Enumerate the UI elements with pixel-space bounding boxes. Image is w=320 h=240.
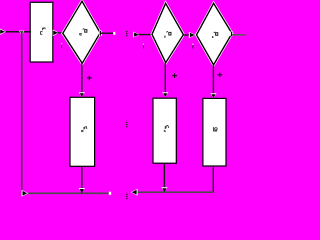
wire: rect C to bus: [81, 166, 83, 189]
continuation dots top: [126, 31, 127, 36]
arrowhead into rect D: [162, 92, 168, 97]
resistor Rin rect D: [153, 98, 176, 163]
wire: right circuit input: [139, 34, 152, 36]
wire: rect D to bus: [163, 163, 165, 188]
wire: rect E to bus: [212, 166, 214, 192]
resistor RL rect E: [203, 98, 226, 166]
current label i stage 1: [61, 45, 63, 49]
label Rin rect C: [82, 127, 87, 132]
wire: left vertical return: [21, 32, 23, 194]
continuation dots middle: [126, 122, 127, 128]
label Rin rect D: [164, 126, 169, 132]
arrowhead rect A to diamond: [53, 30, 59, 37]
plus label stage 3: [217, 72, 222, 77]
wire: diamond 1 output: [101, 32, 113, 34]
tick diamond 3 output: [230, 31, 233, 36]
label diamond U3: [212, 32, 218, 38]
arrowhead input left circuit: [0, 29, 6, 35]
current label i stage 2: [142, 45, 144, 49]
dependent source diamond U1: [63, 1, 100, 63]
wire: right circuit output: [232, 34, 246, 36]
wire: left circuit top input: [1, 31, 30, 33]
arrowhead into rect E: [210, 93, 216, 98]
dependent source diamond U2: [152, 3, 183, 62]
arrowhead bus exit left: [131, 189, 138, 196]
wire: diamond 3 to rect E: [212, 65, 214, 94]
wire: diamond 1 to rect C: [81, 63, 83, 93]
wire: diamond 2 to diamond 3: [183, 34, 196, 36]
wire: left circuit bottom bus: [22, 192, 109, 194]
plus label stage 2: [172, 73, 177, 78]
arrowhead rect C to bus: [79, 188, 85, 193]
dependent source diamond U3: [197, 3, 233, 65]
wire: rect A to diamond 1: [58, 32, 64, 34]
label diamond U1: [80, 29, 87, 36]
open end cap bus: [109, 192, 111, 195]
continuation dots bottom: [126, 194, 127, 200]
arrowhead input right circuit: [133, 32, 140, 38]
arrowhead rect D to bus: [161, 187, 167, 192]
label RL rect E: [213, 127, 217, 131]
wire: diamond 2 to rect D: [164, 63, 166, 94]
tick diamond 1 output: [99, 31, 102, 36]
resistor Rin rect A: [30, 2, 53, 62]
junction arrow down at node: [19, 31, 25, 36]
arrowhead between stages: [189, 32, 196, 39]
label diamond U2: [164, 31, 171, 37]
corner arrow right on bus: [22, 190, 29, 197]
current label i stage 3: [192, 45, 194, 49]
open end cap top: [113, 32, 115, 35]
wire: right circuit bottom bus: [132, 191, 214, 193]
arrowhead into rect C: [79, 92, 85, 97]
plus label stage 1: [87, 76, 92, 81]
label Rin rect A: [40, 28, 45, 35]
resistor Rin rect C: [70, 97, 95, 166]
